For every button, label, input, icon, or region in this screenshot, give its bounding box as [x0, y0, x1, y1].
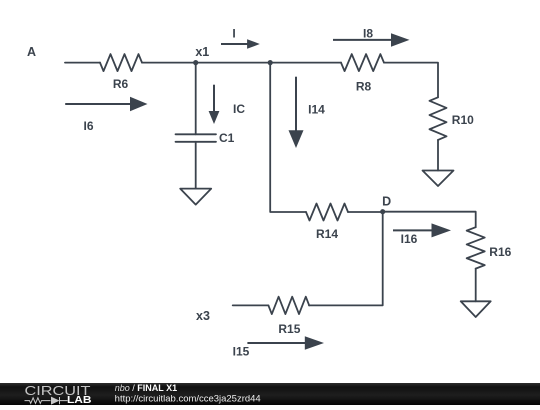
resistor R8	[341, 54, 384, 71]
wire x3 to R15	[233, 304, 269, 306]
svg-text:R8: R8	[356, 80, 372, 94]
svg-text:nbo / FINAL X1: nbo / FINAL X1	[115, 383, 177, 393]
svg-text:R14: R14	[316, 227, 338, 241]
current arrow IC head	[209, 111, 220, 124]
resistor R6	[100, 54, 142, 71]
wire R10 to ground	[437, 140, 439, 171]
svg-text:http://circuitlab.com/cce3ja25: http://circuitlab.com/cce3ja25zrd44	[115, 394, 261, 404]
CircuitLab logo diode triangle	[51, 397, 60, 405]
svg-text:I: I	[232, 27, 235, 41]
ground below R16	[461, 301, 491, 317]
current arrow I8 head	[391, 33, 410, 47]
wire C1 to ground	[195, 142, 197, 189]
current arrow I8 shaft	[333, 39, 392, 41]
current arrow I16 head	[432, 223, 452, 237]
resistor R10	[430, 97, 447, 140]
wire A to R6	[65, 62, 100, 64]
wire D to corner and down to R16	[383, 212, 476, 228]
current arrow I15 shaft	[247, 342, 306, 344]
wire x1 to C1	[195, 63, 197, 135]
current arrow IC shaft	[213, 85, 215, 112]
svg-text:I16: I16	[401, 232, 418, 246]
svg-text:I14: I14	[308, 102, 325, 116]
wire junction down to R14 row	[270, 63, 306, 212]
junction dot at middle branch	[268, 60, 273, 65]
current arrow I6 shaft	[65, 103, 131, 105]
wire R14 to node D	[348, 211, 383, 213]
svg-text:x3: x3	[196, 309, 210, 323]
svg-text:x1: x1	[195, 45, 209, 59]
wire junction to R8	[270, 62, 341, 64]
node D junction dot	[380, 209, 385, 214]
svg-text:R6: R6	[113, 77, 129, 91]
resistor R15	[268, 297, 309, 314]
ground below C1	[180, 189, 211, 205]
svg-text:C1: C1	[219, 131, 235, 145]
resistor R16	[467, 227, 485, 268]
current arrow I6 head	[130, 97, 148, 112]
svg-text:A: A	[27, 45, 36, 59]
current arrow I15 head	[305, 336, 324, 350]
wire R16 to ground	[475, 269, 477, 302]
svg-text:R15: R15	[278, 322, 300, 336]
current arrow I16 shaft	[393, 229, 433, 231]
svg-text:LAB: LAB	[67, 395, 92, 405]
svg-text:D: D	[382, 195, 391, 209]
svg-text:R16: R16	[489, 245, 511, 259]
capacitor C1	[176, 134, 217, 142]
svg-text:IC: IC	[233, 102, 245, 116]
current arrow I shaft	[221, 43, 248, 45]
svg-text:I8: I8	[363, 27, 373, 41]
wire D down to R15 row	[309, 212, 383, 305]
wire R6 to node x1	[142, 62, 196, 64]
svg-text:I6: I6	[83, 119, 93, 133]
current arrow I head	[247, 39, 260, 49]
resistor R14	[306, 204, 348, 221]
wire x1 to junction	[196, 62, 270, 64]
CircuitLab logo resistor-diode line	[25, 397, 68, 404]
svg-text:R10: R10	[452, 113, 474, 127]
node x1 junction dot	[193, 60, 198, 65]
ground below R10	[423, 171, 454, 187]
current arrow I14 shaft	[295, 77, 297, 131]
svg-text:I15: I15	[233, 345, 250, 359]
wire R8 to corner	[384, 63, 438, 98]
current arrow I14 head	[289, 130, 304, 148]
